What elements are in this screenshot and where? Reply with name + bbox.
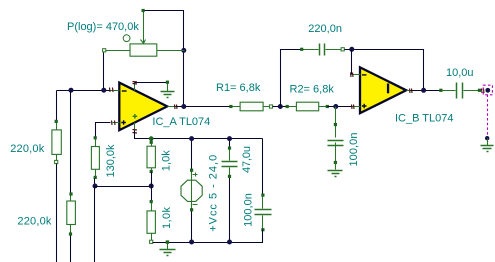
pin mark IC_B output — [410, 89, 413, 94]
svg-text:IC_B TL074: IC_B TL074 — [395, 112, 454, 124]
ground at IC_A V- pin — [161, 81, 175, 98]
svg-text:100,0n: 100,0n — [348, 133, 360, 167]
wire x71 down to R 220k #2 — [70, 91, 72, 195]
pin mark IC_A inverting input — [110, 88, 114, 93]
wire wiper-top feedback run — [144, 11, 184, 51]
wire bias rail y186 — [95, 186, 152, 188]
junction IC_A output node — [181, 104, 186, 109]
resistor 130,0k — [91, 136, 99, 179]
junction node divider tap left — [93, 184, 98, 189]
junction IC_B output node — [421, 88, 426, 93]
pin mark IC_B inverting input — [351, 73, 354, 78]
wire inverting input rail — [57, 90, 111, 92]
svg-text:220,0k: 220,0k — [10, 143, 45, 155]
wire 220n to IC_B output node — [345, 50, 424, 91]
junction 47u bottom on ground rail — [227, 240, 232, 245]
wire ground rail bottom — [153, 242, 263, 244]
resistor 1,0k lower — [147, 200, 155, 243]
junction node poti-left on inverting rail — [101, 88, 106, 93]
svg-text:R2= 6,8k: R2= 6,8k — [290, 83, 335, 95]
op-amp U2 IC_B TL074 — [352, 67, 411, 113]
wire feedback riser poti-right node to IC_A output node — [183, 51, 185, 107]
wire x95 node down to bottom edge — [94, 187, 96, 262]
resistor R1 6,8k — [229, 102, 272, 111]
wire IC_B input node down to 100n — [335, 107, 337, 125]
wire dashed port reference down — [487, 95, 489, 139]
capacitor 100,0n supply bypass — [255, 194, 272, 232]
wire left branch down to R 220k #1 — [56, 91, 58, 122]
resistor 1,0k upper — [147, 139, 155, 174]
junction node divider midpoint — [149, 184, 154, 189]
node at poti right terminal — [181, 48, 186, 53]
svg-text:R1= 6,8k: R1= 6,8k — [216, 82, 261, 94]
pin mark IC_A V+ bottom pin — [133, 130, 138, 134]
wire IC_A top pin to ground — [135, 82, 168, 84]
ground below 100n at IC_B input — [328, 163, 343, 177]
pin mark IC_A V- top pin — [133, 82, 138, 85]
wire 100n bottom to ground rail — [261, 230, 263, 243]
junction output port pin — [485, 88, 490, 93]
resistor R2 6,8k — [286, 102, 329, 111]
ground at output port — [481, 139, 494, 152]
wire R2 to IC_B non-inverting input — [328, 106, 353, 108]
junction IC_B input node — [333, 104, 338, 109]
capacitor 100,0n at IC_B input — [328, 123, 344, 164]
wire supply rail drop to 100n cap — [262, 139, 264, 196]
wire divider vertical through midpoint — [151, 172, 153, 202]
junction 47u top on supply rail — [227, 136, 232, 141]
svg-text:130,0k: 130,0k — [105, 144, 117, 178]
svg-text:1,0k: 1,0k — [161, 207, 173, 230]
wire IC_B inverting riser — [351, 50, 353, 75]
svg-text:220,0k: 220,0k — [17, 216, 52, 228]
svg-text:P(log)= 470,0k: P(log)= 470,0k — [67, 21, 139, 33]
svg-text:+Vcc 5 - 24,0: +Vcc 5 - 24,0 — [207, 155, 219, 232]
wire 130k bottom to mid node — [94, 179, 96, 187]
wire R1 to R2 — [273, 106, 288, 108]
junction vsrc bottom on ground rail — [189, 240, 194, 245]
junction feedback tap node — [278, 104, 283, 109]
pin mark IC_B non-inverting input — [352, 105, 355, 110]
pin mark IC_A output — [175, 105, 178, 110]
wire non-inverting input feed — [96, 123, 111, 138]
wire IC_A V+ pin to supply rail — [135, 131, 263, 139]
wire poti left pin down to inverting node — [103, 53, 105, 91]
wire below 220k#1 to bottom edge — [56, 164, 58, 262]
svg-text:10,0u: 10,0u — [446, 67, 474, 79]
wire below 220k#2 to bottom edge — [70, 236, 72, 262]
ground main symbol — [160, 240, 176, 255]
pin mark output port — [482, 89, 485, 94]
potentiometer P(log) 470,0k — [103, 9, 185, 56]
junction node x71 on inverting rail — [69, 88, 74, 93]
resistor 220,0k #2 — [67, 192, 76, 235]
wire feedback riser to 220n rail — [281, 50, 302, 107]
wire IC_B output to 10u — [411, 90, 441, 92]
output port VF dashed box — [483, 85, 492, 95]
op-amp U1 IC_A TL074 — [111, 83, 176, 131]
junction IC_B inverting tap on 220n rail — [349, 47, 354, 52]
capacitor 10,0u output — [439, 83, 481, 99]
resistor 220,0k #1 — [52, 120, 61, 164]
capacitor 220,0n feedback — [300, 44, 344, 56]
wire IC_A output to R1 — [176, 106, 231, 108]
svg-text:47,0u: 47,0u — [241, 146, 253, 173]
svg-text:1,0k: 1,0k — [161, 150, 173, 172]
junction 1k-top on supply rail (green) — [149, 136, 154, 141]
junction vsrc top on supply rail — [189, 136, 194, 141]
junction port reference node — [485, 136, 489, 140]
svg-text:100,0n: 100,0n — [243, 193, 255, 227]
svg-text:220,0n: 220,0n — [308, 23, 342, 35]
voltage source +Vcc — [181, 139, 202, 243]
capacitor 47,0u — [222, 139, 238, 243]
svg-text:IC_A TL074: IC_A TL074 — [152, 116, 210, 128]
pin mark IC_A non-inverting input — [112, 121, 116, 126]
